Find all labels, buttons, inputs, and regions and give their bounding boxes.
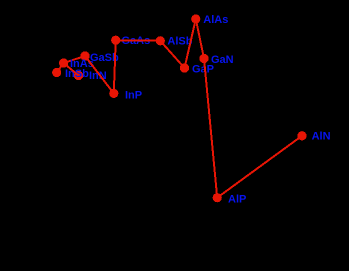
svg-text:AlN: AlN [312, 131, 331, 143]
wire GaSb-InP [85, 56, 114, 93]
node AlAs [191, 14, 200, 23]
wire GaAs-AlSb [116, 39, 161, 42]
svg-text:InP: InP [125, 90, 142, 102]
svg-text:GaN: GaN [211, 54, 234, 66]
svg-text:AlAs: AlAs [203, 14, 228, 26]
node GaP [180, 63, 189, 72]
node InAs [59, 58, 68, 67]
node GaSb [80, 51, 89, 60]
wire InSb-InAs [57, 63, 64, 73]
wire AlAs-GaP [185, 19, 196, 68]
node AlSb [156, 36, 165, 45]
wire AlP-AlN [217, 136, 302, 198]
wire GaAs-InP [114, 40, 116, 93]
wire GaN-AlP [204, 59, 217, 198]
node GaN [199, 54, 208, 63]
wire InAs-GaSb [64, 56, 85, 63]
wire AlSb-GaP [160, 41, 184, 68]
wire AlAs-GaN [196, 19, 204, 59]
node AlP [213, 193, 222, 202]
node InP [109, 89, 118, 98]
node AlN [297, 131, 306, 140]
node GaAs [111, 36, 120, 45]
svg-text:AlP: AlP [228, 194, 246, 206]
node InN [74, 71, 83, 80]
wire InAs-InN [64, 63, 79, 76]
node InSb [52, 68, 61, 77]
